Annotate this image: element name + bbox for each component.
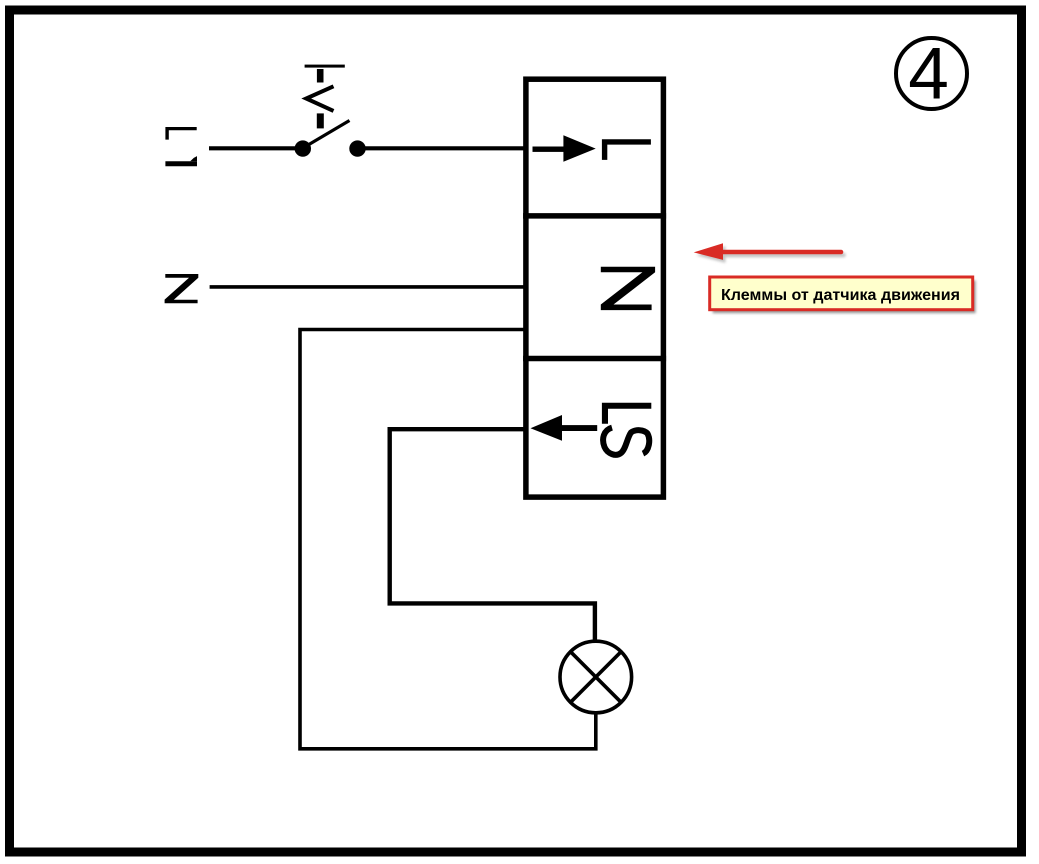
figure number 4 (circled)	[896, 34, 967, 115]
terminal block	[523, 79, 666, 497]
wire from terminal N to lamp loop (neutral)	[300, 330, 596, 749]
terminal label N (rotated)	[601, 267, 655, 310]
wire L1 (from label to switch)	[209, 146, 303, 150]
switch S1	[295, 65, 366, 157]
wire from switch to terminal L	[358, 146, 525, 150]
annotation red arrow	[694, 243, 844, 263]
arrow into terminal L	[533, 135, 596, 162]
svg-text:4: 4	[908, 34, 949, 115]
wire from terminal LS to lamp	[390, 429, 595, 640]
terminal label L (rotated)	[602, 139, 651, 160]
label L1 (rotated)	[165, 127, 197, 166]
arrow out of terminal LS	[531, 415, 598, 441]
svg-text:Клеммы от датчика движения: Клеммы от датчика движения	[721, 287, 960, 304]
wire N (from label to terminal N)	[210, 285, 524, 289]
lamp EL	[560, 641, 632, 713]
terminal label LS (rotated)	[602, 403, 651, 455]
callout tooltip "Клеммы от датчика движения"	[710, 277, 976, 313]
label N (rotated)	[165, 274, 199, 303]
